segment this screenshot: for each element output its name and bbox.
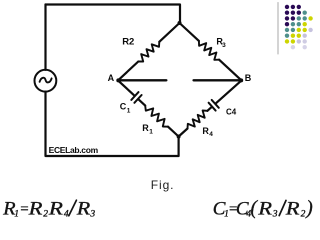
svg-text:R: R xyxy=(142,123,149,133)
svg-text:2: 2 xyxy=(43,209,48,219)
svg-text:4: 4 xyxy=(64,209,69,219)
svg-text:3: 3 xyxy=(272,209,278,219)
svg-text:C4: C4 xyxy=(226,107,237,116)
svg-text:R: R xyxy=(27,199,42,220)
svg-text:R2: R2 xyxy=(122,37,134,48)
svg-text:): ) xyxy=(305,198,313,219)
node top xyxy=(178,21,182,25)
sine symbol xyxy=(40,78,52,83)
node bottom xyxy=(177,135,181,139)
wire C1 to R1 xyxy=(139,100,146,106)
wire arm A to R2 xyxy=(118,62,138,81)
node B xyxy=(239,78,243,82)
equation left R1=R2R4/R3 xyxy=(2,199,95,220)
node A xyxy=(116,78,120,82)
wire top node to R3 xyxy=(180,23,199,41)
wire R3 to B xyxy=(219,60,241,81)
wire B to C4 xyxy=(216,80,242,103)
AC source V1 xyxy=(35,70,57,92)
svg-text:R: R xyxy=(285,199,300,220)
logo dot grid xyxy=(285,5,313,50)
svg-text:Fig.: Fig. xyxy=(151,178,175,192)
svg-text:3: 3 xyxy=(89,209,95,219)
resistor R3 xyxy=(199,41,219,60)
svg-text:ECELab.com: ECELab.com xyxy=(49,145,99,155)
svg-text:1: 1 xyxy=(127,107,131,114)
svg-text:2: 2 xyxy=(301,209,306,219)
resistor R1 xyxy=(145,106,168,127)
wire left upper xyxy=(44,5,46,70)
svg-text:R: R xyxy=(48,199,64,220)
wire top xyxy=(46,5,181,24)
svg-text:1: 1 xyxy=(149,128,153,135)
svg-text:R: R xyxy=(257,199,272,220)
logo separator line xyxy=(277,3,279,55)
wire A to C1 xyxy=(118,80,134,95)
wire R1 to bottom node xyxy=(168,127,179,137)
svg-text:1: 1 xyxy=(14,209,19,219)
svg-text:A: A xyxy=(108,73,115,83)
svg-text:B: B xyxy=(245,73,252,83)
resistor R2 xyxy=(138,42,159,62)
svg-text:(: ( xyxy=(251,198,259,219)
capacitor C1 xyxy=(131,92,141,103)
wire C4 to R4 xyxy=(207,107,211,111)
wire R4 to bottom node xyxy=(179,129,188,137)
resistor R4 xyxy=(188,111,208,129)
detector stub right xyxy=(194,79,242,81)
wire left lower xyxy=(46,92,179,156)
detector stub left xyxy=(118,79,166,81)
svg-text:3: 3 xyxy=(222,42,226,49)
capacitor C4 xyxy=(209,100,219,111)
equation right C1=C4(R3/R2) xyxy=(213,198,313,220)
wire R2 to top node xyxy=(159,23,179,42)
svg-text:R: R xyxy=(76,199,91,220)
svg-text:=: = xyxy=(20,202,28,218)
svg-text:4: 4 xyxy=(209,131,213,138)
